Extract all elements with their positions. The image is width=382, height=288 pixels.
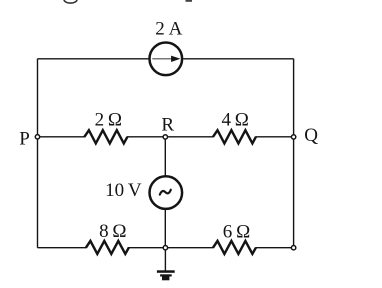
svg-text:R: R: [161, 115, 174, 136]
wire: AC source down to bottom node: [164, 210, 166, 246]
svg-text:2 Ω: 2 Ω: [95, 110, 122, 131]
node Q terminal: [291, 135, 295, 139]
label R: [161, 115, 174, 136]
resistor 6 ohm zigzag: [213, 241, 256, 254]
svg-text:8 Ω: 8 Ω: [99, 221, 126, 242]
label 10 V: [105, 180, 142, 201]
label Q: [304, 125, 318, 146]
wire right vertical (Q branch): [293, 59, 295, 246]
node R junction: [163, 135, 167, 139]
AC source V1 sine symbol: [160, 190, 171, 195]
current source I1 circle: [150, 43, 183, 76]
label 2 ohm: [95, 110, 122, 131]
stray caption fragment (top-left descender): [64, 0, 77, 3]
label P: [19, 128, 30, 149]
stray caption fragment (top-right descender): [186, 0, 193, 2]
resistor 8 ohm zigzag: [86, 241, 129, 254]
wire middle: 2ohm to R: [127, 136, 163, 138]
wire: R node down to AC source: [164, 139, 166, 176]
node P terminal: [35, 135, 39, 139]
svg-text:P: P: [19, 128, 30, 149]
label 8 ohm: [99, 221, 126, 242]
svg-text:6 Ω: 6 Ω: [223, 221, 250, 242]
label 6 ohm: [223, 221, 250, 242]
label 2 A: [155, 19, 182, 40]
wire: bottom node down to ground: [164, 250, 166, 271]
wire middle: P to 2ohm: [40, 136, 85, 138]
current source I1 arrow: [152, 56, 180, 62]
svg-text:4 Ω: 4 Ω: [221, 110, 248, 131]
wire middle: R to 4ohm: [168, 136, 214, 138]
AC source V1 circle: [150, 176, 183, 209]
wire left vertical (P branch): [37, 59, 39, 248]
wire bottom: left corner to 8ohm: [38, 247, 87, 249]
svg-text:10 V: 10 V: [105, 180, 142, 201]
wire top-left horizontal: [38, 58, 149, 60]
svg-text:2 A: 2 A: [155, 19, 182, 40]
node bottom-center junction: [163, 246, 167, 250]
svg-text:Q: Q: [304, 125, 318, 146]
wire top-right horizontal: [183, 58, 293, 60]
node bottom-right terminal: [291, 246, 295, 250]
label 4 ohm: [221, 110, 248, 131]
resistor 4 ohm zigzag: [213, 130, 256, 143]
wire bottom: center node to 6ohm: [168, 247, 214, 249]
ground symbol: [157, 270, 175, 280]
resistor 2 ohm zigzag: [84, 130, 127, 143]
wire bottom: 8ohm to center node: [128, 247, 163, 249]
wire bottom: 6ohm to right terminal: [255, 247, 291, 249]
wire middle: 4ohm to Q: [255, 136, 291, 138]
